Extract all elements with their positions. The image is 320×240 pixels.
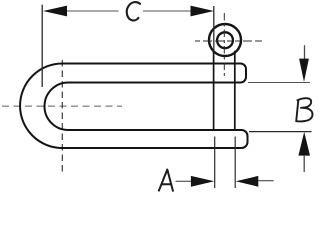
dimension B arrowhead down <box>299 59 309 82</box>
pin shaft left edge <box>213 51 215 131</box>
pin shaft right edge <box>234 51 236 131</box>
dimension C extension line right <box>213 6 215 52</box>
dimension B bottom stem <box>303 155 305 172</box>
dimension C extension line left <box>41 5 43 87</box>
dimension C line left segment <box>66 10 119 12</box>
dimension B extension line bottom <box>249 131 312 133</box>
dimension A tail right <box>258 180 274 182</box>
dimension A tail left <box>176 180 192 182</box>
label C <box>127 2 140 20</box>
pin head inner circle <box>217 32 233 48</box>
label A <box>159 170 173 191</box>
dimension B arrowhead up <box>298 132 310 156</box>
vertical bow centerline <box>61 60 63 174</box>
pin horizontal centerline <box>195 40 262 42</box>
dimension A arrowhead pointing right <box>191 176 214 187</box>
dimension B top stem <box>304 45 306 60</box>
shackle body outline <box>20 64 247 149</box>
dimension C arrowhead right <box>191 6 214 17</box>
dimension A extension line left <box>214 137 216 189</box>
dimension C line right segment <box>143 10 192 12</box>
pin head outer circle <box>209 24 241 56</box>
dimension C arrowhead left <box>43 6 67 17</box>
label B <box>296 98 312 121</box>
dimension A extension line right <box>234 137 236 189</box>
dimension A arrowhead pointing left <box>236 176 259 187</box>
horizontal bow centerline <box>2 105 122 107</box>
dimension B extension line top <box>248 82 310 84</box>
pin vertical centerline <box>223 13 225 76</box>
